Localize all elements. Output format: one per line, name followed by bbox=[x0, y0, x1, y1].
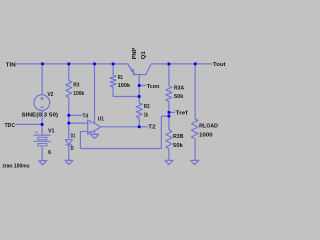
svg-text:T2: T2 bbox=[148, 125, 155, 131]
svg-text:PNP: PNP bbox=[132, 47, 138, 59]
svg-text:SINE(0 3 50): SINE(0 3 50) bbox=[22, 113, 59, 119]
svg-text:6: 6 bbox=[48, 150, 51, 156]
svg-text:U1: U1 bbox=[98, 116, 104, 122]
svg-text:R3: R3 bbox=[73, 82, 79, 88]
svg-text:100k: 100k bbox=[73, 91, 84, 97]
svg-text:D1: D1 bbox=[71, 134, 76, 140]
svg-text:RLOAD: RLOAD bbox=[199, 123, 218, 129]
svg-text:Q1: Q1 bbox=[141, 51, 147, 59]
svg-text:100k: 100k bbox=[118, 83, 131, 89]
svg-text:V1: V1 bbox=[48, 128, 55, 134]
svg-text:Tref: Tref bbox=[176, 111, 188, 117]
svg-text:1k: 1k bbox=[144, 112, 148, 118]
svg-text:50k: 50k bbox=[173, 143, 183, 149]
svg-text:V2: V2 bbox=[47, 92, 53, 98]
svg-text:Tcon: Tcon bbox=[147, 84, 160, 90]
svg-text:R1: R1 bbox=[118, 75, 123, 81]
svg-text:TIN: TIN bbox=[6, 63, 17, 69]
svg-text:Tout: Tout bbox=[213, 62, 226, 68]
svg-text:50k: 50k bbox=[174, 94, 183, 100]
svg-text:R2: R2 bbox=[144, 104, 150, 110]
svg-text:R3B: R3B bbox=[173, 134, 184, 140]
svg-text:.tran 100ms: .tran 100ms bbox=[2, 163, 30, 169]
svg-text:Td: Td bbox=[83, 113, 89, 119]
svg-text:R3A: R3A bbox=[174, 86, 184, 92]
svg-text:1000: 1000 bbox=[199, 132, 213, 138]
svg-text:TDC: TDC bbox=[5, 123, 16, 129]
svg-text:D: D bbox=[71, 146, 74, 152]
